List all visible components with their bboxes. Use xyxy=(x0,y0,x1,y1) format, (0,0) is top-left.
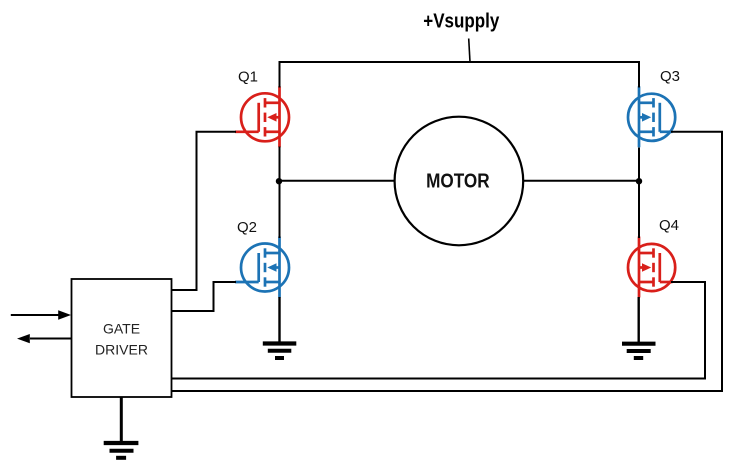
svg-text:MOTOR: MOTOR xyxy=(426,170,490,192)
wire Q3 source to node B xyxy=(638,148,640,183)
motor M1 xyxy=(395,117,524,246)
gate driver U1 box xyxy=(72,279,172,397)
ground under Q2 xyxy=(263,344,297,359)
wire node A to motor left terminal xyxy=(280,180,396,182)
node A junction dot xyxy=(276,178,282,184)
wire node B to Q4 drain xyxy=(638,181,640,238)
svg-text:DRIVER: DRIVER xyxy=(95,342,148,358)
svg-text:Q2: Q2 xyxy=(237,219,257,236)
wire node A to Q2 drain xyxy=(279,181,281,238)
wire Q2 source to ground xyxy=(278,297,280,343)
wire gate driver to Q1 gate xyxy=(172,132,237,290)
wire gate driver to Q4 gate xyxy=(172,282,706,379)
wire gate driver to Q2 gate xyxy=(172,282,237,311)
transistor Q4 xyxy=(628,237,675,298)
wire gate driver to Q3 gate xyxy=(172,132,723,391)
wire Q4 source to ground xyxy=(638,297,640,343)
svg-text:Q4: Q4 xyxy=(659,217,679,234)
wire motor right terminal to node B xyxy=(523,180,639,182)
svg-text:GATE: GATE xyxy=(103,321,140,337)
svg-text:Q1: Q1 xyxy=(238,69,258,86)
wire Q1 source to node A xyxy=(279,147,281,183)
ground under gate driver xyxy=(104,443,139,458)
transistor Q2 xyxy=(235,237,289,298)
wire Vsupply tick xyxy=(469,39,470,63)
svg-text:Q3: Q3 xyxy=(660,68,680,85)
input arrow into gate driver xyxy=(11,310,71,319)
transistor Q1 xyxy=(235,86,289,147)
svg-text:+Vsupply: +Vsupply xyxy=(423,9,499,32)
node B junction dot xyxy=(636,178,642,184)
ground under Q4 xyxy=(622,344,656,358)
wire top rail +Vsupply xyxy=(280,62,640,88)
transistor Q3 xyxy=(628,86,675,147)
wire gate driver to ground xyxy=(120,397,123,442)
output arrow from gate driver xyxy=(17,334,72,343)
